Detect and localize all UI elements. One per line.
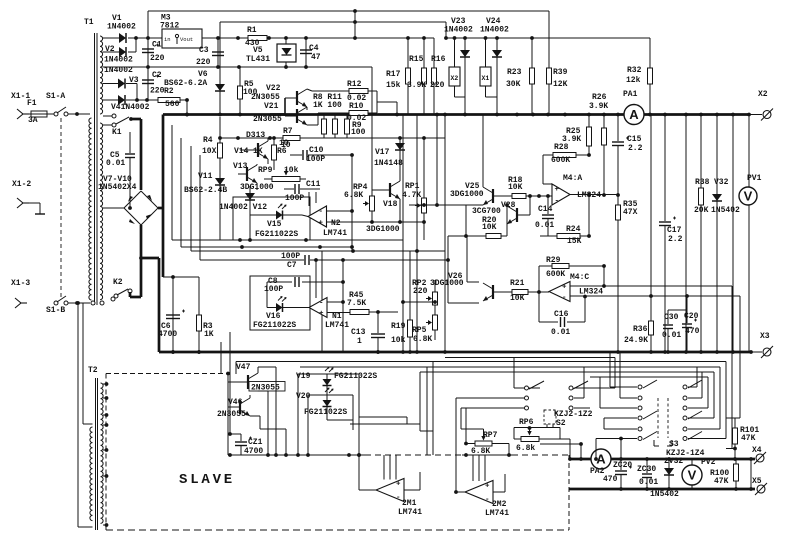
wire [350, 155, 354, 251]
wire nest h3 [420, 372, 714, 424]
label R36 [633, 325, 648, 334]
label R19 [391, 322, 406, 331]
wire [158, 115, 163, 209]
label RP5 value [413, 335, 432, 344]
wire X3 drop [158, 258, 161, 352]
wire [570, 285, 732, 287]
label R4 value [202, 147, 217, 156]
label C17 value [668, 235, 683, 244]
tap [103, 523, 108, 527]
label ZC20 [613, 461, 632, 470]
svg-text:RP7: RP7 [483, 431, 498, 440]
label M3 value [160, 22, 179, 31]
wire [465, 205, 467, 236]
label 2M1 [402, 499, 417, 508]
capacitor CZ1 [228, 432, 252, 457]
label X4 [752, 446, 762, 455]
svg-text:10K: 10K [510, 294, 525, 303]
resistor R38 [699, 115, 704, 353]
wire [455, 398, 457, 455]
label ZC30 value [639, 478, 658, 487]
svg-text:100P: 100P [264, 285, 283, 294]
svg-text:47K: 47K [714, 477, 729, 486]
switch S1-B [54, 296, 79, 305]
resistor R45 [350, 310, 380, 315]
wire [620, 352, 637, 398]
wire [103, 37, 119, 39]
label V47 [236, 363, 251, 372]
tap [103, 396, 108, 400]
junction [495, 113, 499, 117]
capacitor C4 [300, 38, 312, 67]
label R26 value [589, 102, 608, 111]
label C16 value [551, 328, 570, 337]
svg-text:100: 100 [351, 128, 366, 137]
svg-text:RP6: RP6 [519, 418, 534, 427]
label T1 [84, 18, 94, 27]
wire [220, 342, 222, 374]
svg-text:R39: R39 [553, 68, 568, 77]
pot RP4 [363, 170, 375, 222]
label CZ1 value [244, 447, 263, 456]
svg-text:10: 10 [279, 139, 289, 148]
svg-text:V5: V5 [253, 46, 263, 55]
wire rail y38c [444, 36, 650, 40]
label R1 value [245, 39, 260, 48]
capacitor C13 [371, 312, 385, 354]
label 2V32 value [650, 490, 679, 499]
capacitor C5 [125, 132, 135, 210]
label F1 [27, 99, 37, 108]
svg-text:S1-B: S1-B [46, 306, 65, 315]
relay coil S3 [654, 398, 672, 446]
label S2 type [554, 410, 593, 419]
wire [126, 84, 137, 101]
label D313 [246, 131, 265, 140]
label V23 [451, 17, 466, 26]
svg-text:R2: R2 [164, 87, 174, 96]
wire [486, 38, 498, 115]
label C14 [538, 205, 553, 214]
wire nest v3 [688, 372, 714, 418]
label V4 [111, 103, 150, 112]
svg-text:3A: 3A [28, 116, 38, 125]
wire vertical [416, 115, 418, 353]
terminal X1-1 [17, 109, 29, 119]
svg-text:PV1: PV1 [747, 174, 762, 183]
label C2 [152, 71, 162, 80]
label M3 [161, 14, 171, 23]
label R45 [349, 291, 364, 300]
op-amp N1 [309, 298, 327, 319]
label X1-1 [11, 92, 30, 101]
diode V4 [118, 95, 125, 105]
label V11 [198, 172, 213, 181]
svg-text:R4: R4 [203, 136, 213, 145]
svg-text:LM324: LM324 [579, 288, 603, 297]
transistor V47 [228, 367, 268, 391]
wire nest v1 [688, 362, 726, 439]
wire [543, 155, 552, 184]
svg-text:R36: R36 [633, 325, 648, 334]
label C13 value [357, 337, 362, 346]
svg-text:V6: V6 [198, 70, 208, 79]
wire [560, 428, 572, 461]
junction [546, 113, 550, 117]
transistor V28 [505, 194, 532, 224]
svg-text:V22: V22 [266, 84, 281, 93]
svg-text:47K: 47K [741, 434, 756, 443]
svg-text:C16: C16 [554, 310, 569, 319]
wire [600, 377, 637, 408]
svg-text:-: - [562, 294, 567, 302]
slave rail dashed [365, 454, 462, 456]
label R2 [164, 87, 174, 96]
label C15 value [628, 144, 643, 153]
svg-text:10k: 10k [391, 336, 406, 345]
ammeter PA2 [591, 449, 611, 469]
svg-text:1K: 1K [204, 330, 214, 339]
capacitor ZC30 [642, 457, 652, 489]
resistor R24 [548, 234, 589, 239]
label R101 [740, 426, 759, 435]
junction [435, 113, 439, 117]
label V13 [233, 162, 248, 171]
diode 2V32 [664, 459, 674, 489]
label C30 [664, 313, 679, 322]
junction [197, 350, 201, 354]
label R38 value [694, 206, 709, 215]
svg-text:V32: V32 [714, 178, 729, 187]
label R39 value [553, 80, 568, 89]
fuse F1 [29, 111, 54, 117]
junction [443, 350, 447, 354]
svg-text:1N4002: 1N4002 [107, 23, 136, 32]
label R100 [710, 469, 729, 478]
terminal X1-2 [17, 198, 29, 208]
label V46 value [217, 410, 246, 419]
label R35 [623, 200, 638, 209]
wire nest box [514, 358, 615, 389]
svg-text:CZ1: CZ1 [248, 438, 263, 447]
svg-text:0.01: 0.01 [639, 478, 658, 487]
wire [750, 459, 752, 489]
label V16 [266, 312, 281, 321]
wire [610, 352, 637, 387]
label ZC20 value [603, 475, 618, 484]
svg-text:10k: 10k [284, 166, 299, 175]
svg-text:15K: 15K [567, 237, 582, 246]
label T2 [88, 366, 98, 375]
diode V24 [492, 38, 502, 97]
wire X5 bus [569, 487, 755, 491]
label M4:C value [579, 288, 603, 297]
label V5 value [246, 55, 270, 64]
label V3 [129, 76, 139, 85]
svg-text:560: 560 [165, 100, 180, 109]
junction [563, 113, 567, 117]
label V19 value [334, 372, 377, 381]
label R39 [553, 68, 568, 77]
svg-text:220: 220 [196, 58, 211, 67]
junction [731, 113, 735, 117]
svg-text:470: 470 [685, 327, 700, 336]
slave rail 2 [462, 453, 512, 457]
svg-text:3DG1000: 3DG1000 [450, 190, 484, 199]
resistor R17 [406, 38, 411, 115]
label M4:C [570, 273, 589, 282]
wire [77, 113, 90, 115]
label V25 [465, 182, 480, 191]
svg-text:1N4002: 1N4002 [104, 56, 133, 65]
label R21 [510, 279, 525, 288]
label V15 [267, 220, 282, 229]
op-amp M4:A [552, 184, 570, 206]
svg-text:R7: R7 [283, 127, 293, 136]
svg-text:10K: 10K [482, 223, 497, 232]
label V1 [112, 14, 122, 23]
label V17 [375, 148, 390, 157]
wire [130, 296, 141, 299]
label R3 value [204, 330, 214, 339]
op-amp N2 [308, 192, 327, 228]
wire [327, 419, 353, 421]
svg-text:TL431: TL431 [246, 55, 270, 64]
svg-text:7.5K: 7.5K [347, 299, 366, 308]
label R28 [554, 143, 569, 152]
svg-text:R17: R17 [386, 70, 401, 79]
wire [180, 138, 182, 247]
label S1-A [46, 92, 65, 101]
svg-text:0.01: 0.01 [535, 221, 554, 230]
svg-text:V21: V21 [264, 102, 279, 111]
junction [715, 350, 719, 354]
junction [376, 350, 380, 354]
svg-text:1K 100: 1K 100 [313, 101, 342, 110]
tap [103, 423, 108, 427]
label V13 value [240, 183, 274, 192]
wire nest v2 [688, 367, 720, 429]
svg-text:V19: V19 [296, 372, 311, 381]
transistor V22 [285, 89, 349, 110]
svg-text:30K: 30K [506, 80, 521, 89]
wire [219, 22, 221, 67]
svg-text:100P: 100P [285, 194, 304, 203]
svg-text:LM741: LM741 [485, 509, 509, 518]
svg-text:1N5402: 1N5402 [650, 490, 679, 499]
wire [465, 408, 467, 444]
capacitor C1 [142, 38, 159, 67]
label V21 value [253, 115, 282, 124]
resistor R2 [126, 98, 187, 103]
label R29 [546, 256, 561, 265]
label V24 value [480, 26, 509, 35]
svg-text:KZJ2-1Z2: KZJ2-1Z2 [554, 410, 593, 419]
svg-text:1N5402X4: 1N5402X4 [98, 183, 137, 192]
diode V23 [460, 38, 470, 97]
label R28 value [551, 156, 570, 165]
resistor R7 [283, 136, 300, 141]
label V24 [486, 17, 501, 26]
svg-text:C4: C4 [309, 44, 319, 53]
label V32 value [711, 206, 740, 215]
wire [103, 83, 118, 85]
resistor R4 [218, 117, 223, 161]
svg-text:LM741: LM741 [325, 321, 349, 330]
wire [409, 203, 456, 207]
label C20 value [685, 327, 700, 336]
wire [190, 146, 192, 251]
wire nest h4 [359, 417, 407, 424]
svg-text:V: V [688, 468, 697, 483]
wire nest [445, 357, 514, 359]
wire [103, 207, 124, 209]
wire [163, 276, 199, 278]
svg-text:R29: R29 [546, 256, 561, 265]
wire [540, 442, 583, 459]
wire [751, 351, 762, 353]
wire bridge minus [140, 225, 143, 297]
pot RP5 [426, 312, 438, 340]
svg-text:C15: C15 [627, 135, 642, 144]
wire [314, 258, 318, 298]
wire [258, 391, 268, 455]
label V1 value [107, 23, 136, 32]
transistor V46 [228, 395, 260, 416]
svg-text:2V32: 2V32 [664, 457, 683, 466]
pot RP9 [264, 169, 306, 182]
junction [602, 113, 606, 117]
label R15 [409, 55, 424, 64]
voltmeter PV2 [682, 459, 702, 489]
wire [76, 301, 80, 527]
wire [171, 125, 173, 240]
label V47 value [249, 382, 285, 393]
capacitor C7 [200, 255, 450, 265]
zener V11 [215, 161, 225, 240]
junction [616, 350, 620, 354]
zener V6 [215, 67, 225, 113]
svg-text:R15: R15 [409, 55, 424, 64]
wire nest h5 [350, 424, 433, 431]
capacitor C30 [663, 310, 687, 352]
svg-text:24.9K: 24.9K [624, 336, 648, 345]
label V21 [264, 102, 279, 111]
svg-text:V20: V20 [296, 392, 311, 401]
capacitor C10 [290, 150, 354, 160]
terminal X3 [761, 346, 773, 358]
wire [432, 362, 434, 455]
resistor R15 [422, 38, 427, 115]
tap [103, 382, 108, 386]
label R7 value [281, 141, 291, 150]
label R19 value [391, 336, 406, 345]
relay contact K2 [114, 289, 132, 298]
label V6 value [164, 79, 207, 88]
relay S3 contacts [638, 367, 702, 441]
label V11 value [184, 186, 227, 195]
svg-text:R38: R38 [695, 178, 710, 187]
label R29 value [546, 270, 565, 279]
slave box dashed right [568, 455, 570, 530]
svg-text:FG211022S: FG211022S [334, 372, 377, 381]
wire [191, 249, 445, 253]
resistor R100 [734, 459, 739, 489]
label R24 [566, 225, 581, 234]
relay contact K1 [103, 114, 133, 127]
svg-text:3DG1000: 3DG1000 [240, 183, 274, 192]
relay coil X2/K2 box [449, 67, 460, 86]
wire [354, 11, 356, 38]
terminal X1-3 [15, 298, 27, 308]
switch S1-A [54, 107, 79, 116]
label C7 [287, 261, 297, 270]
label C1 value [150, 54, 165, 63]
svg-text:-: - [396, 494, 401, 502]
label C11 value [285, 194, 304, 203]
wire [460, 408, 462, 429]
wire rail y38 [202, 36, 248, 40]
transistor V26 [467, 236, 512, 301]
label R26 [592, 93, 607, 102]
wire [378, 311, 398, 313]
led V16 [267, 296, 309, 312]
junction [749, 350, 753, 354]
resistor R25 [587, 115, 592, 157]
svg-text:6.8K: 6.8K [344, 191, 363, 200]
wire [77, 302, 90, 304]
svg-text:220: 220 [150, 54, 165, 63]
svg-text:470: 470 [603, 475, 618, 484]
wire [401, 300, 437, 304]
resistor R28 [543, 153, 589, 158]
svg-text:12k: 12k [626, 76, 641, 85]
wire [514, 428, 560, 440]
capacitor ZC20 [615, 439, 632, 490]
svg-text:S1-A: S1-A [46, 92, 65, 101]
slave box dashed top [106, 372, 230, 376]
label C5 [110, 151, 120, 160]
svg-text:R26: R26 [592, 93, 607, 102]
svg-text:220: 220 [413, 287, 428, 296]
svg-text:FG211022S: FG211022S [304, 408, 347, 417]
svg-text:RP9: RP9 [258, 166, 273, 175]
voltmeter PV1 [739, 115, 757, 353]
regulator U-M3 box [162, 29, 202, 48]
label C20 [684, 312, 699, 321]
resistor R101 [733, 418, 738, 459]
svg-text:0.01: 0.01 [662, 331, 681, 340]
label 2M2 [492, 500, 507, 509]
wire [604, 428, 637, 430]
resistor R12 [349, 89, 368, 94]
wire X4 bus [570, 457, 755, 461]
svg-text:C14: C14 [538, 205, 553, 214]
capacitor C14 [540, 194, 554, 236]
svg-text:1N4148: 1N4148 [374, 159, 403, 168]
label RP6 [519, 418, 534, 427]
svg-text:C13: C13 [351, 328, 366, 337]
label V14 value [253, 147, 263, 156]
label RP5 [412, 326, 427, 335]
junction [415, 350, 419, 354]
junction [684, 113, 688, 117]
svg-text:ZC30: ZC30 [637, 465, 656, 474]
label S1-B [46, 306, 65, 315]
svg-text:+: + [319, 220, 324, 228]
wire [345, 220, 426, 224]
label R10 [349, 102, 364, 111]
